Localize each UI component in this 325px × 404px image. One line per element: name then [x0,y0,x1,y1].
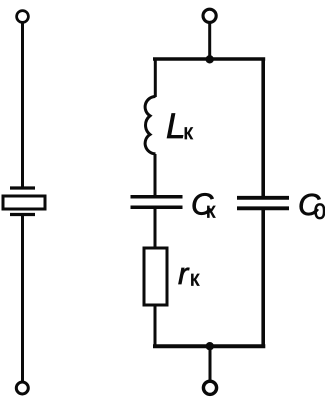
quartz crystal resonator [3,188,45,215]
wire [209,346,212,381]
terminal (right bottom) [203,381,216,394]
wire [21,216,24,381]
svg-text:к: к [206,200,216,223]
wire [21,24,24,188]
inductor Lк [145,97,155,154]
junction (bottom node) [206,342,214,350]
label C0 [298,187,325,224]
wire (top bus) [153,57,265,61]
capacitor Cк [131,197,183,208]
svg-text:r: r [178,256,190,291]
capacitor C0 [237,198,289,209]
wire [208,23,211,60]
wire [154,58,157,98]
label rк [178,256,200,291]
wire (right branch upper) [261,58,265,198]
junction (top node) [206,55,214,63]
wire [154,305,157,348]
terminal (left bottom) [16,382,28,394]
svg-text:к: к [184,121,194,144]
wire [154,154,157,196]
terminal (right top) [203,9,216,22]
terminal (left top) [17,11,29,23]
label Cк [191,187,216,223]
wire (bottom bus) [153,344,265,348]
svg-text:0: 0 [314,199,325,224]
resistor rк [144,248,167,305]
label Lк [166,107,194,146]
wire [154,208,157,247]
wire (right branch lower) [261,209,265,349]
svg-text:к: к [190,268,200,291]
